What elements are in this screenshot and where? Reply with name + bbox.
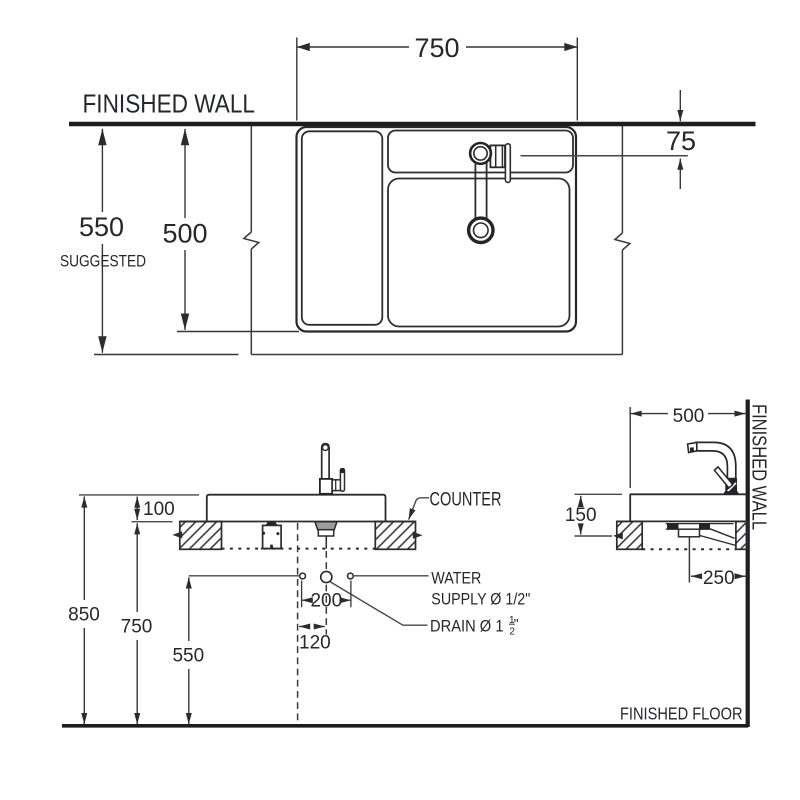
sink left basin (plan) — [302, 131, 383, 324]
dimension 850 (front) line — [83, 496, 85, 600]
dimension 500 (side) extension line — [629, 407, 631, 488]
dimension 500 bottom tick — [177, 331, 299, 333]
dimension 150 (side): ticks and line — [575, 493, 623, 495]
svg-text:250: 250 — [703, 568, 735, 589]
counter front edge (plan bottom) — [251, 354, 622, 356]
counter top tick (front left) — [132, 521, 173, 523]
sink centreline (front, dashed) — [297, 523, 299, 726]
finished wall line (side) — [746, 400, 750, 728]
drain hole (front) — [321, 571, 332, 582]
break symbol right — [615, 233, 630, 250]
dimension 200 line with arrows — [302, 599, 312, 601]
counter right hatched block (front) — [375, 522, 415, 550]
sink faucet deck (plan, top right) — [388, 131, 573, 173]
faucet spout outlet circle (plan) — [469, 218, 493, 242]
svg-text:FINISHED WALL: FINISHED WALL — [748, 404, 771, 530]
drain pipe centreline (side) — [688, 537, 690, 583]
svg-text:COUNTER: COUNTER — [430, 489, 502, 510]
counter cut-out dotted bottom line (side) — [642, 548, 736, 550]
svg-text:500: 500 — [162, 219, 207, 249]
faucet spout (front) — [322, 444, 329, 479]
tap tail piece / angle valve under counter (front) — [266, 522, 277, 525]
svg-text:750: 750 — [414, 33, 459, 63]
counter top line (side) — [617, 520, 748, 522]
svg-text:WATER: WATER — [431, 570, 481, 588]
drain centreline (front, dashed) — [325, 551, 327, 635]
dimension 500 (plan) line — [184, 129, 186, 218]
svg-text:DRAIN Ø 1: DRAIN Ø 1 — [430, 618, 504, 636]
break symbol left — [244, 232, 259, 249]
finished floor line — [62, 724, 748, 728]
counter edge left (plan) with break — [250, 126, 252, 232]
water supply hole right (front) — [348, 573, 354, 579]
svg-text:750: 750 — [121, 617, 153, 638]
svg-text:550: 550 — [172, 646, 204, 667]
faucet spout tip (side) — [688, 442, 697, 452]
faucet side connector (front) — [332, 480, 341, 491]
dimension 550 (plan) line — [101, 129, 103, 212]
dimension 75 upper arrow — [679, 90, 681, 121]
faucet spout curve (side) — [696, 442, 736, 478]
counter break arrow left (front) — [172, 531, 182, 538]
sink main basin (plan, bottom right) — [388, 179, 570, 327]
faucet handle lever (side) — [714, 467, 732, 488]
svg-text:100: 100 — [143, 499, 175, 520]
dimension 550 bottom tick — [94, 354, 239, 356]
counter edge right (plan) with break — [621, 126, 623, 233]
svg-text:SUGGESTED: SUGGESTED — [60, 252, 146, 271]
basin left edge (side) — [629, 494, 631, 521]
counter cut-out dotted bottom line (front) — [222, 548, 376, 550]
water supply hole left (front) — [300, 573, 306, 579]
svg-text:200: 200 — [310, 590, 342, 611]
dimension 200 extension lines — [301, 581, 303, 608]
water supply leader (front) — [354, 575, 429, 577]
dimension 100 line — [136, 497, 138, 509]
dimension 500 (side) line — [630, 413, 668, 415]
dimension 75 lower arrow — [679, 159, 681, 189]
faucet base (front) — [320, 479, 332, 494]
svg-text:FINISHED FLOOR: FINISHED FLOOR — [620, 704, 743, 724]
dimension 250 (side) line — [691, 575, 702, 577]
svg-text:550: 550 — [79, 212, 124, 242]
drain leader (front) — [330, 582, 427, 625]
faucet handle lever (plan) — [505, 144, 510, 183]
basin rim line (side) — [630, 493, 748, 495]
svg-text:75: 75 — [666, 126, 696, 156]
faucet spout tube (plan) — [474, 156, 476, 220]
svg-text:120: 120 — [299, 633, 331, 654]
dimension 750 line with arrows — [297, 46, 409, 48]
drain flange under sink (front) — [315, 522, 337, 530]
faucet body (side) — [726, 479, 737, 492]
faucet handle block (plan) — [490, 145, 505, 167]
dimension 750 extension line left — [296, 38, 298, 121]
sink outer rim (plan) — [297, 127, 577, 332]
svg-text:FINISHED WALL: FINISHED WALL — [83, 89, 256, 119]
dimension 550 (front) line — [188, 577, 190, 641]
counter break arrow right (front) — [413, 532, 423, 539]
faucet base plate (side) — [723, 491, 740, 494]
dimension 750 extension line right — [576, 38, 578, 121]
drain assembly under basin (side) — [666, 523, 734, 525]
counter top line (front) — [180, 521, 416, 523]
leader line for 75 offset (faucet centre to right) — [521, 155, 688, 157]
wire: finished wall line (plan) — [69, 122, 756, 127]
faucet handle (front) — [340, 469, 344, 492]
basin body (front) — [207, 495, 386, 522]
550 top tick / supply level line (front) — [189, 575, 300, 577]
counter left hatched block (front) — [180, 522, 222, 550]
extension line at sink rim level — [79, 494, 199, 496]
dimension 750 (front) line — [136, 523, 138, 612]
faucet base circle (plan) — [470, 143, 491, 164]
counter break arrow left (side) — [613, 532, 623, 539]
svg-text:850: 850 — [68, 605, 100, 626]
svg-text:150: 150 — [565, 505, 597, 526]
svg-text:500: 500 — [673, 406, 705, 427]
dimension 120 arrows — [299, 626, 309, 628]
counter left hatched block (side) — [617, 521, 642, 549]
counter right hatched block (side) — [736, 521, 748, 549]
svg-text:SUPPLY Ø 1/2": SUPPLY Ø 1/2" — [431, 591, 530, 609]
